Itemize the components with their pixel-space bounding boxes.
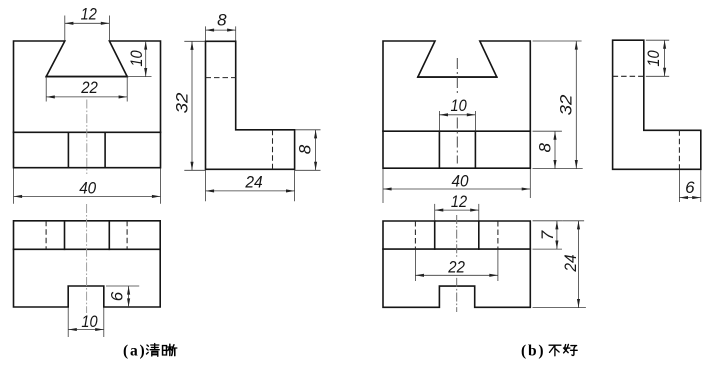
svg-text:6: 6 — [685, 178, 695, 197]
dimension 12 (a) — [65, 5, 110, 41]
dimension 10 (a) — [127, 41, 152, 77]
centerline front view a — [86, 100, 88, 175]
svg-text:(b): (b) — [521, 343, 545, 360]
groove bottom line b — [418, 76, 497, 78]
svg-text:22: 22 — [80, 78, 98, 97]
svg-text:10: 10 — [644, 50, 663, 67]
side view a L outline — [206, 41, 295, 169]
hidden groove bottom b — [613, 75, 644, 77]
dimension 10 bottom (a) — [68, 308, 104, 338]
dimension 8 right (a) — [295, 130, 321, 171]
hole edge right a — [104, 132, 106, 167]
front view b outline with dovetail groove — [383, 41, 530, 168]
dimension 40 (b) — [383, 169, 530, 203]
dimension 12 (b) — [435, 192, 479, 221]
dimension 22 (b) — [415, 250, 498, 282]
hidden dovetail edge right a — [126, 221, 128, 250]
svg-text:32: 32 — [557, 94, 576, 115]
svg-text:8: 8 — [295, 144, 314, 154]
dimension 8 top (a) — [206, 11, 236, 41]
hidden hole edge b — [678, 130, 680, 169]
svg-text:40: 40 — [79, 178, 96, 197]
svg-text:10: 10 — [127, 50, 146, 67]
band line bottom view a — [14, 248, 161, 250]
svg-text:40: 40 — [452, 171, 469, 190]
dimension 6 (a) — [106, 286, 139, 307]
dimension 22 (a) — [46, 77, 127, 102]
dimension 10 (b) — [439, 96, 475, 131]
hidden dovetail edge right b — [497, 221, 499, 249]
svg-text:8: 8 — [536, 143, 555, 153]
svg-text:12: 12 — [451, 192, 468, 211]
hidden dovetail edge left a — [45, 221, 47, 250]
front view a outline with dovetail groove — [14, 41, 161, 168]
hole edge left b — [438, 131, 440, 168]
dimension 10 side (b) — [644, 40, 669, 76]
CJK xi — [163, 344, 177, 356]
dimension 40 (a) — [14, 169, 161, 204]
label (a) — [123, 343, 177, 360]
hidden dovetail edge left b — [414, 221, 416, 249]
band line bottom view b — [383, 248, 530, 250]
centerline bottom view a — [86, 204, 88, 313]
dimension 32 (b) — [533, 41, 583, 169]
CJK qing — [147, 344, 160, 357]
svg-text:(a): (a) — [123, 343, 146, 360]
svg-text:10: 10 — [81, 312, 98, 331]
dimension 24 (a) — [206, 170, 295, 201]
svg-text:32: 32 — [173, 92, 192, 113]
svg-text:7: 7 — [538, 230, 557, 240]
hole edge right b — [474, 131, 476, 168]
hole edge left a — [67, 132, 69, 167]
hidden hole edge a — [272, 130, 274, 170]
centerline front view b — [456, 58, 458, 95]
bottom view b outline with notch — [383, 221, 530, 307]
centerline bottom view b — [456, 215, 458, 258]
opening edge right b — [478, 221, 480, 249]
band line a — [14, 131, 161, 133]
dimension 32 (a) — [173, 41, 206, 170]
svg-text:6: 6 — [108, 291, 127, 301]
svg-text:10: 10 — [451, 96, 468, 115]
CJK bu — [549, 345, 561, 356]
bottom view a outline with notch — [14, 221, 161, 307]
band line b — [383, 130, 530, 132]
hidden groove bottom a — [206, 77, 236, 79]
svg-text:22: 22 — [447, 258, 465, 277]
svg-text:12: 12 — [81, 5, 98, 24]
opening edge left a — [64, 221, 66, 250]
CJK hao — [564, 344, 578, 355]
opening edge right a — [108, 221, 110, 250]
dimension 24 (b) — [533, 221, 586, 308]
svg-text:24: 24 — [561, 254, 580, 272]
dimension 6 (b) — [679, 170, 700, 202]
label (b) — [521, 343, 577, 360]
dimension 7 (b) — [533, 221, 563, 249]
side view b L outline — [613, 40, 701, 169]
groove bottom line a — [46, 76, 127, 78]
svg-text:8: 8 — [217, 11, 227, 30]
opening edge left b — [434, 221, 436, 249]
svg-text:24: 24 — [244, 172, 262, 191]
dimension 8 (b) — [533, 131, 562, 168]
